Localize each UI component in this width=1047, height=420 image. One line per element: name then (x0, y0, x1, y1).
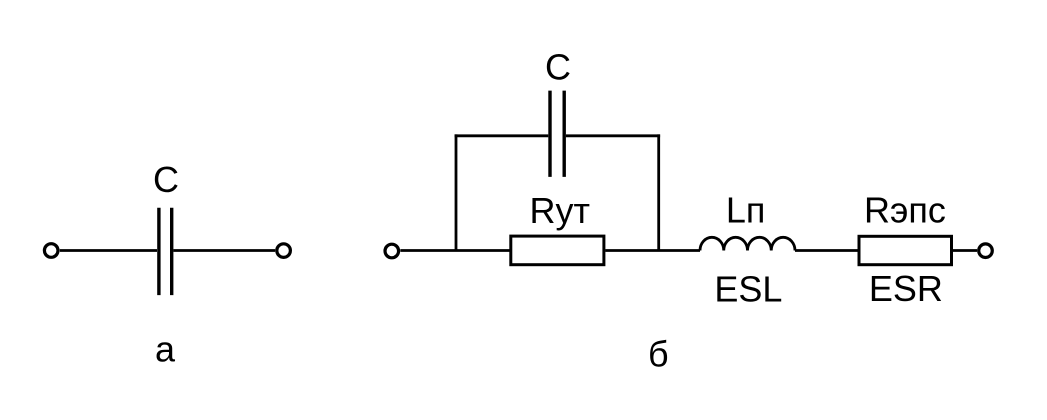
svg-text:Rэпс: Rэпс (864, 190, 946, 231)
inductor Lп (ESL coil, 4 arcs) (700, 237, 795, 250)
terminal T3 (right circuit b, left lead) (385, 244, 399, 258)
svg-text:C: C (153, 159, 179, 200)
terminal T1 (left circuit a, left lead) (44, 244, 58, 258)
svg-text:Rут: Rут (530, 190, 591, 231)
wire (inductor to resistor Rэпс) (795, 249, 858, 252)
wire (top rail, left of capacitor C) (455, 134, 549, 137)
label ESR (869, 268, 943, 309)
wire (bottom rail from T3 to resistor Rут) (400, 249, 510, 252)
label б (caption of circuit b) (648, 334, 669, 375)
terminal T2 (left circuit a, right lead) (277, 244, 291, 258)
label Lп (726, 190, 766, 231)
label ESL (714, 268, 782, 309)
wire (60, 249, 157, 252)
svg-text:а: а (155, 329, 176, 370)
capacitor C (circuit b, top branch) (550, 91, 564, 177)
svg-text:ESL: ESL (714, 268, 782, 309)
wire (Rэпс to terminal T4) (953, 249, 977, 252)
svg-text:б: б (648, 334, 669, 375)
resistor Rут (leakage resistance box) (511, 236, 604, 265)
svg-text:C: C (545, 47, 571, 88)
capacitor C (circuit a) (159, 208, 172, 295)
label Rут (530, 190, 591, 231)
label C (circuit b capacitor) (545, 47, 571, 88)
svg-text:ESR: ESR (869, 268, 943, 309)
wire (left vertical branch of parallel loop) (455, 134, 458, 250)
wire (173, 249, 275, 252)
wire (bottom rail, Rут to inductor) (605, 249, 700, 252)
label а (caption of circuit a) (155, 329, 176, 370)
resistor Rэпс (ESR box) (859, 236, 952, 264)
label C (circuit a capacitor value) (153, 159, 179, 200)
wire (top rail, right of capacitor C) (566, 134, 660, 137)
svg-text:Lп: Lп (726, 190, 766, 231)
label Rэпс (864, 190, 946, 231)
terminal T4 (right circuit b, right lead) (979, 244, 993, 258)
wire (right vertical branch of parallel loop) (657, 134, 660, 250)
